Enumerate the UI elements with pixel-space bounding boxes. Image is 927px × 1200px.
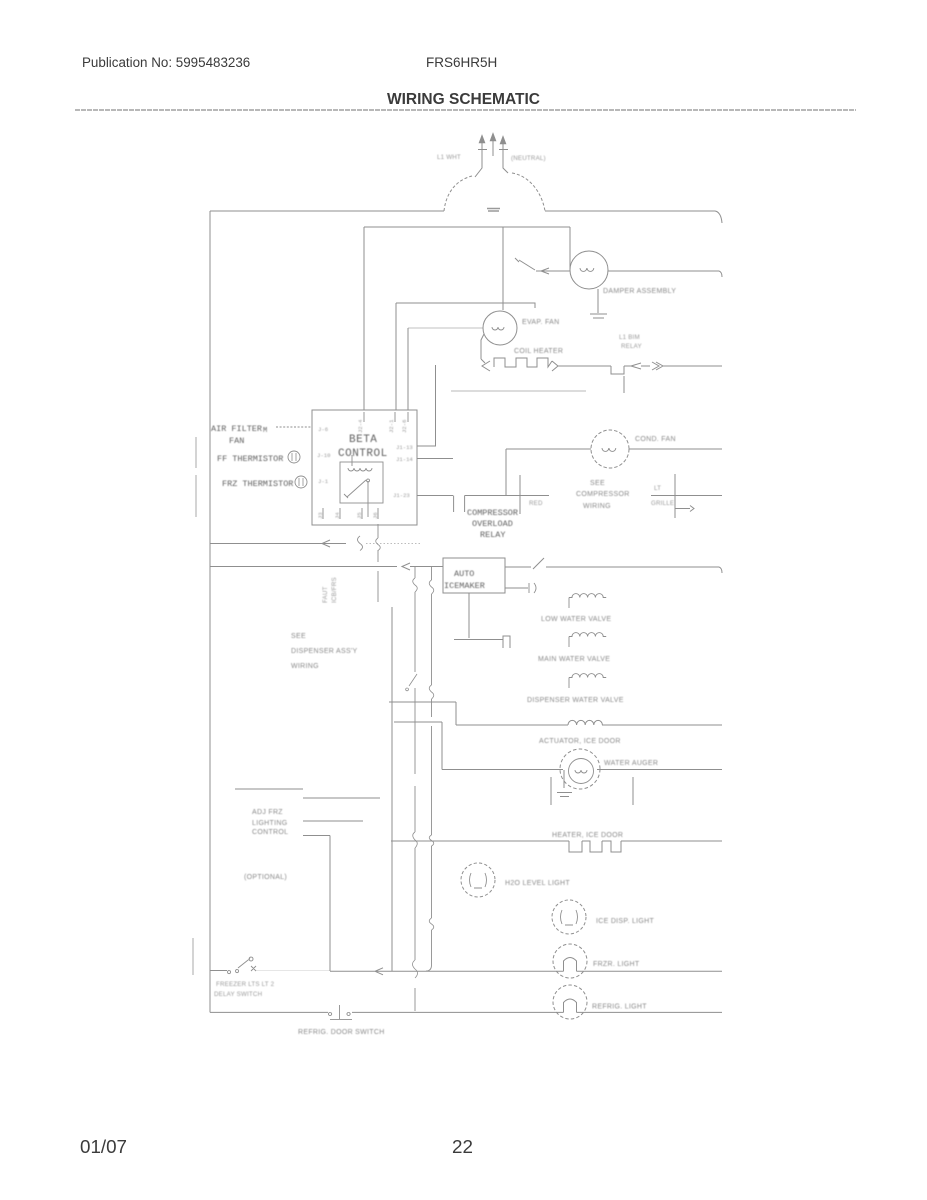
wire: vertical run x415 with connectors xyxy=(414,567,416,1011)
plug body left shoulder xyxy=(444,176,472,211)
IC U1: beta control box xyxy=(312,410,417,525)
power plug prong neutral xyxy=(500,136,506,144)
svg-text:HEATER, ICE DOOR: HEATER, ICE DOOR xyxy=(552,832,623,839)
svg-text:01/07: 01/07 xyxy=(80,1136,127,1157)
solenoid L2: main water valve xyxy=(569,633,606,647)
svg-text:ICE DISP. LIGHT: ICE DISP. LIGHT xyxy=(596,918,654,925)
svg-text:ICEMAKER: ICEMAKER xyxy=(444,581,485,591)
wire: lighting control leads xyxy=(235,789,380,971)
solenoid L1: low water valve xyxy=(569,594,606,608)
svg-text:DISPENSER ASS'Y: DISPENSER ASS'Y xyxy=(291,648,358,655)
wire: J1-13 riser xyxy=(417,365,436,446)
switch after icemaker xyxy=(505,558,722,573)
svg-text:J1-14: J1-14 xyxy=(396,456,413,463)
svg-text:WIRING: WIRING xyxy=(583,503,611,510)
svg-text:(NEUTRAL): (NEUTRAL) xyxy=(511,155,546,162)
faint continuation freezer switch xyxy=(256,970,330,972)
svg-text:FRS6HR5H: FRS6HR5H xyxy=(426,55,497,70)
svg-text:RELAY: RELAY xyxy=(621,343,642,350)
svg-text:J1-23: J1-23 xyxy=(393,492,410,499)
wire: J1-23 to compressor xyxy=(417,496,549,513)
solenoid L4: ice door actuator in line xyxy=(456,720,722,725)
svg-text:MAIN WATER VALVE: MAIN WATER VALVE xyxy=(538,656,610,663)
svg-text:WATER AUGER: WATER AUGER xyxy=(604,760,658,767)
svg-text:ACTUATOR, ICE DOOR: ACTUATOR, ICE DOOR xyxy=(539,738,621,745)
svg-text:FAN: FAN xyxy=(229,436,244,446)
svg-text:DISPENSER WATER VALVE: DISPENSER WATER VALVE xyxy=(527,697,624,704)
svg-text:L1 WHT: L1 WHT xyxy=(437,154,461,161)
connector pins flanking auger xyxy=(551,777,633,805)
lamp: refrigerator light xyxy=(553,985,587,1019)
capacitor at icemaker xyxy=(505,583,536,593)
lamp: H2O level light xyxy=(461,863,495,897)
wire: left page bus (vertical) xyxy=(209,211,211,1012)
beta control top pin ticks xyxy=(364,412,408,422)
wire: vertical run x431 with connectors xyxy=(426,567,432,971)
wire: refrigerator light line xyxy=(210,1011,722,1013)
svg-text:Publication No: 5995483236: Publication No: 5995483236 xyxy=(82,55,250,70)
power plug prong ground xyxy=(490,133,496,141)
switch: freezer door xyxy=(210,957,256,974)
svg-text:J2-6: J2-6 xyxy=(401,420,408,433)
svg-text:BETA: BETA xyxy=(349,434,377,446)
svg-text:CONTROL: CONTROL xyxy=(252,829,288,836)
ground: water auger xyxy=(557,770,572,797)
svg-text:CONTROL: CONTROL xyxy=(338,448,388,460)
svg-text:DAMPER ASSEMBLY: DAMPER ASSEMBLY xyxy=(603,288,676,295)
wire: drop to beta control J2 xyxy=(363,227,365,410)
motor: condenser fan xyxy=(591,430,629,468)
svg-text:M: M xyxy=(263,427,267,435)
wire: drop to damper line xyxy=(569,227,571,271)
switch: damper door xyxy=(515,258,535,270)
wire: below icemaker T xyxy=(454,593,510,648)
lamp: ice dispenser light xyxy=(552,900,586,934)
svg-text:COIL HEATER: COIL HEATER xyxy=(514,348,563,355)
wire: condenser fan line xyxy=(506,448,722,450)
wire: top supply line left of plug xyxy=(210,210,444,212)
svg-text:J6: J6 xyxy=(372,512,379,519)
lead from prong neutral xyxy=(503,150,508,173)
svg-text:SEE: SEE xyxy=(291,633,306,640)
svg-text:H2O LEVEL LIGHT: H2O LEVEL LIGHT xyxy=(505,880,570,887)
wire: drop to evap fan xyxy=(502,227,504,310)
left margin tick marks xyxy=(193,437,196,975)
lamp: freezer light xyxy=(553,944,587,978)
svg-text:FRZ THERMISTOR: FRZ THERMISTOR xyxy=(222,479,293,489)
wire: J1-14 stub xyxy=(417,458,453,460)
svg-text:LT: LT xyxy=(654,485,661,492)
motor: water auger xyxy=(442,769,722,771)
wire: freezer light line xyxy=(330,968,722,975)
dashed lead air filter fan to J1-6 xyxy=(276,426,312,428)
ground: damper xyxy=(590,289,607,318)
plug body right shoulder xyxy=(512,173,545,211)
svg-text:J3: J3 xyxy=(317,512,324,519)
svg-text:WIRING SCHEMATIC: WIRING SCHEMATIC xyxy=(387,91,540,108)
svg-text:COMPRESSOR: COMPRESSOR xyxy=(467,508,518,518)
wire: beta pin drop xyxy=(377,524,379,602)
svg-text:REFRIG. DOOR SWITCH: REFRIG. DOOR SWITCH xyxy=(298,1029,385,1036)
faint coil boundary line xyxy=(451,390,586,392)
svg-text:22: 22 xyxy=(452,1136,473,1157)
wire: damper line left xyxy=(536,268,570,274)
svg-text:WIRING: WIRING xyxy=(291,663,319,670)
svg-text:AUTO: AUTO xyxy=(454,569,474,579)
ground pad under plug xyxy=(487,209,500,212)
wire: evap fan to J2 drop xyxy=(408,327,483,329)
wire: rail B (neutral) to icemaker xyxy=(210,563,443,570)
icemaker box xyxy=(443,558,505,593)
svg-text:FAUT: FAUT xyxy=(322,586,329,603)
power plug prong L1 xyxy=(479,135,485,143)
title rule xyxy=(75,109,856,111)
motor: evaporator fan xyxy=(483,311,517,345)
wire: second rail top xyxy=(364,226,570,228)
wire: damper line right xyxy=(608,271,722,277)
wire: defrost stub down xyxy=(623,376,625,393)
svg-text:DELAY SWITCH: DELAY SWITCH xyxy=(214,991,262,998)
beta control bottom pin ticks xyxy=(323,508,378,519)
wire: mid junction stubs xyxy=(389,702,456,770)
wire: cond fan drop to compressor box xyxy=(506,449,520,514)
svg-text:COND. FAN: COND. FAN xyxy=(635,436,676,443)
svg-text:J1-13: J1-13 xyxy=(396,444,413,451)
svg-text:EVAP. FAN: EVAP. FAN xyxy=(522,319,559,326)
thermistor RT1 (FF) symbol xyxy=(288,451,300,463)
switch: refrigerator door xyxy=(328,1005,352,1019)
svg-text:J-10: J-10 xyxy=(317,452,331,459)
svg-text:REFRIG. LIGHT: REFRIG. LIGHT xyxy=(592,1004,647,1011)
svg-text:J2-4: J2-4 xyxy=(357,419,364,433)
svg-text:COMPRESSOR: COMPRESSOR xyxy=(576,491,630,498)
motor: damper assembly xyxy=(570,251,608,289)
lead from prong L1 xyxy=(475,150,482,177)
wire: top supply line right of plug xyxy=(545,211,722,223)
thermistor RT2 (FRZ) symbol xyxy=(295,476,307,488)
svg-text:ADJ FRZ: ADJ FRZ xyxy=(252,809,283,816)
svg-text:J2-1: J2-1 xyxy=(388,419,395,433)
run capacitor stub xyxy=(651,474,722,518)
wire: rail A (defrost) xyxy=(210,540,346,547)
svg-text:FF THERMISTOR: FF THERMISTOR xyxy=(217,454,283,464)
svg-text:RED: RED xyxy=(529,500,543,507)
svg-text:J-6: J-6 xyxy=(318,426,328,433)
wire: rail y303 xyxy=(396,303,535,308)
svg-text:AIR FILTER: AIR FILTER xyxy=(211,424,262,434)
svg-text:LOW WATER VALVE: LOW WATER VALVE xyxy=(541,616,611,623)
relay K1 inside beta control xyxy=(340,462,383,503)
svg-text:LIGHTING: LIGHTING xyxy=(252,820,287,827)
svg-text:J4: J4 xyxy=(334,512,341,519)
svg-text:(OPTIONAL): (OPTIONAL) xyxy=(244,874,287,881)
resistor: coil heater xyxy=(481,359,490,371)
connector on rail A xyxy=(358,536,363,551)
svg-text:ICB/FRS: ICB/FRS xyxy=(331,577,338,603)
wire: vertical run x392 xyxy=(391,607,393,971)
svg-text:J-1: J-1 xyxy=(318,478,329,485)
svg-text:GRILLE: GRILLE xyxy=(651,500,674,507)
svg-text:FREEZER LTS LT 2: FREEZER LTS LT 2 xyxy=(216,981,275,988)
svg-text:FRZR. LIGHT: FRZR. LIGHT xyxy=(593,961,640,968)
svg-text:RELAY: RELAY xyxy=(480,530,506,540)
svg-text:OVERLOAD: OVERLOAD xyxy=(472,519,513,529)
svg-text:SEE: SEE xyxy=(590,480,605,487)
defrost thermostat xyxy=(611,362,722,374)
svg-text:J5: J5 xyxy=(356,512,363,519)
wire: evap fan left lead xyxy=(481,334,484,359)
svg-text:L1 BIM: L1 BIM xyxy=(619,334,640,341)
solenoid L3: dispenser water valve xyxy=(569,674,606,688)
resistor: heater ice door xyxy=(391,841,722,852)
